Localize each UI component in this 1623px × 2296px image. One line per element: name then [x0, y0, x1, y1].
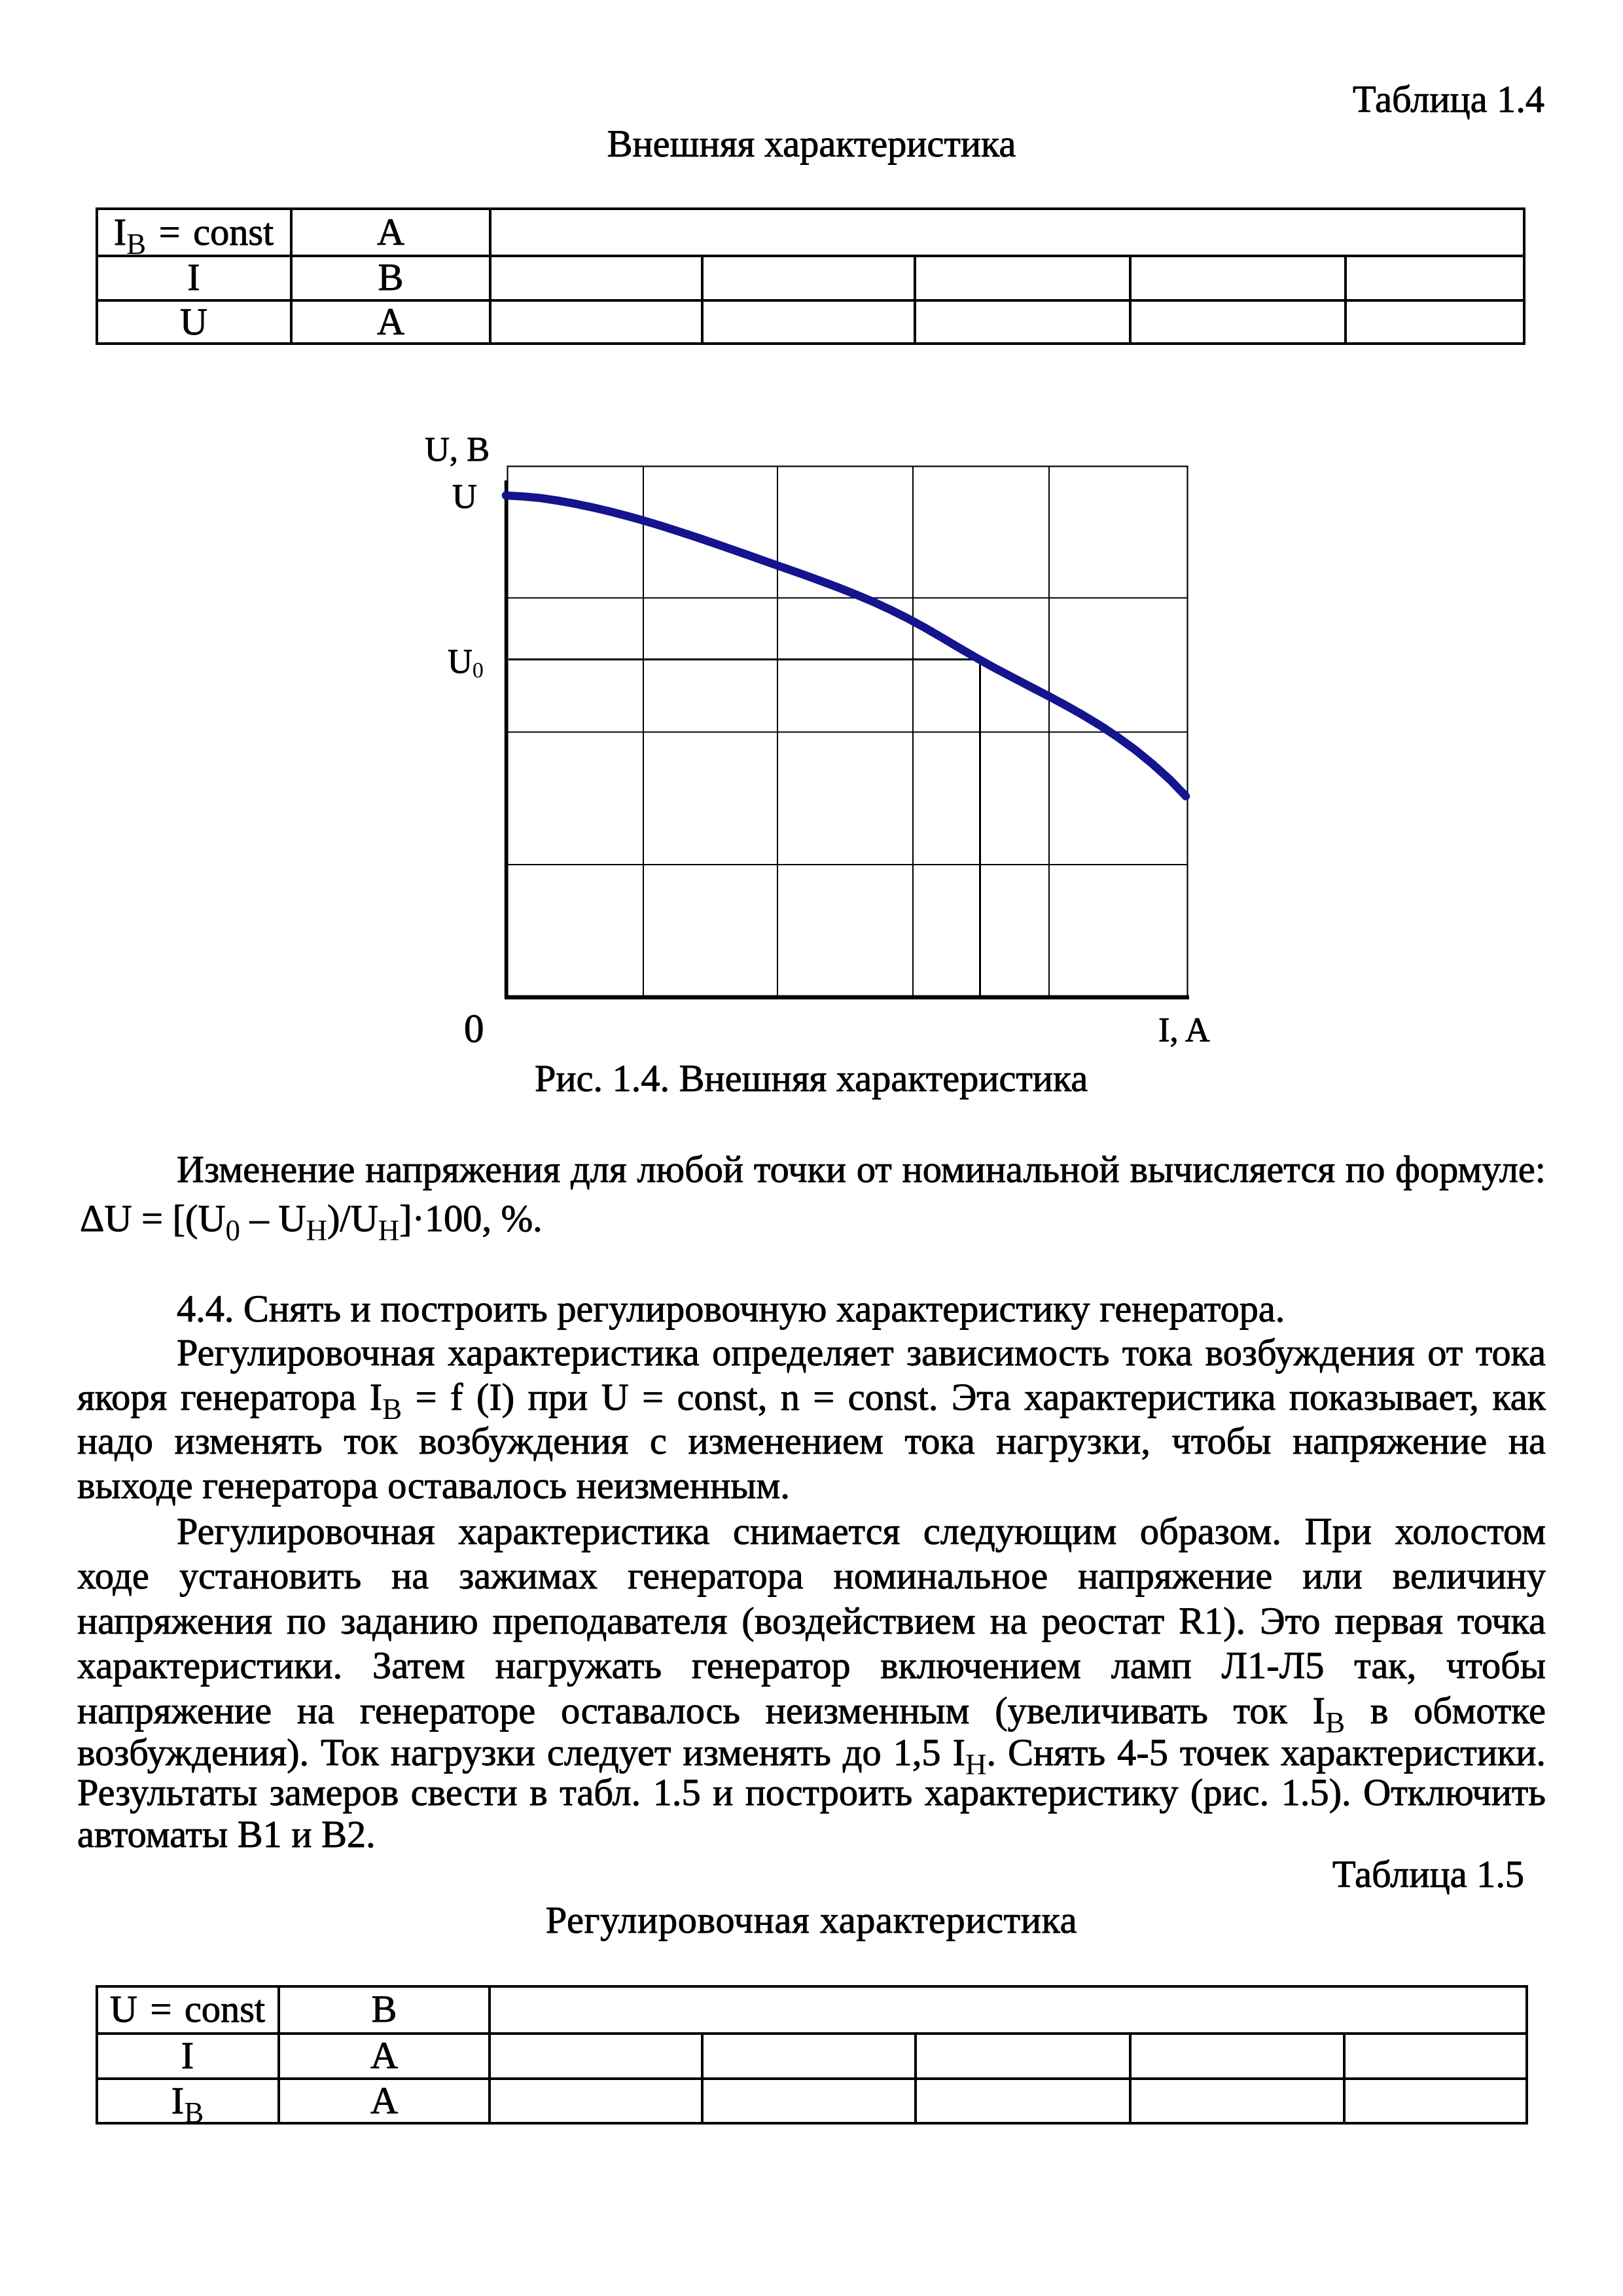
- chart labels: [425, 431, 490, 469]
- inner horizontals at page y=390.5,458.5: [98, 255, 1523, 257]
- thick y axis: [505, 480, 508, 999]
- plot border thin rect: [508, 467, 1188, 997]
- table 1.4 row2: I | B: [97, 259, 291, 296]
- vertical gridlines: [643, 467, 644, 996]
- table 1.5 row2: I | A: [97, 2037, 278, 2075]
- paragraph A: [77, 1151, 1546, 1189]
- inner verticals: page x=445,749 full height; 1073,1398,1727,2056 rows2-3: [290, 210, 293, 342]
- TABLE 1.5: [96, 1985, 1528, 2125]
- caption "Таблица 1.4" top right: [1353, 81, 1544, 118]
- thick x axis: [505, 996, 1189, 1000]
- paragraph B: [177, 1290, 1285, 1328]
- U0 marker horizontal line: [508, 658, 981, 660]
- curve U=f(I): [506, 495, 1186, 797]
- table 1.5 row1: U = const | B: [97, 1990, 278, 2028]
- figure caption: [535, 1060, 1088, 1098]
- table 1.5 row3: IB | A: [97, 2082, 278, 2120]
- horizontal gridlines: [508, 598, 1187, 599]
- title "Внешняя характеристика": [0, 125, 1623, 163]
- U0 marker vertical line: [979, 658, 981, 997]
- table 1.4 row3: U | A: [97, 303, 291, 341]
- paragraph C: [77, 1334, 1546, 1372]
- TABLE 1.4: [96, 207, 1525, 345]
- paragraph D: [77, 1513, 1546, 1551]
- caption "Таблица 1.5" right: [1332, 1856, 1524, 1893]
- title "Регулировочная характеристика": [0, 1901, 1623, 1939]
- table 1.4 row1: IB = const | A: [97, 213, 291, 251]
